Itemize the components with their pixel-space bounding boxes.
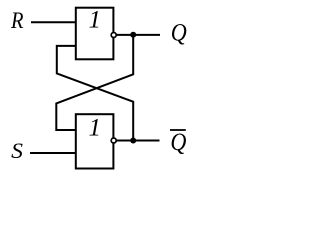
wire R input	[31, 21, 76, 23]
wire S input	[30, 152, 76, 154]
wire Q-bar output	[116, 140, 160, 142]
svg-text:Q: Q	[170, 129, 186, 156]
svg-text:1: 1	[89, 114, 102, 141]
inversion bubble of U2	[111, 138, 116, 143]
gate U1 (upper NAND, IEC box)	[76, 8, 114, 60]
junction node Q	[130, 32, 136, 38]
gate U2 (lower NAND, IEC box)	[76, 114, 114, 168]
wire feedback from node Q to lower gate input (cross)	[56, 35, 133, 130]
inversion bubble of U1	[111, 33, 116, 38]
wire Q output	[116, 34, 160, 36]
svg-text:1: 1	[89, 7, 102, 34]
svg-text:R: R	[10, 8, 23, 34]
svg-text:S: S	[11, 138, 23, 163]
junction node Q-bar	[130, 138, 136, 144]
wire feedback from node Q-bar to upper gate input (cross)	[57, 46, 133, 141]
svg-text:Q: Q	[171, 20, 187, 47]
overline of Q-bar	[170, 129, 186, 131]
